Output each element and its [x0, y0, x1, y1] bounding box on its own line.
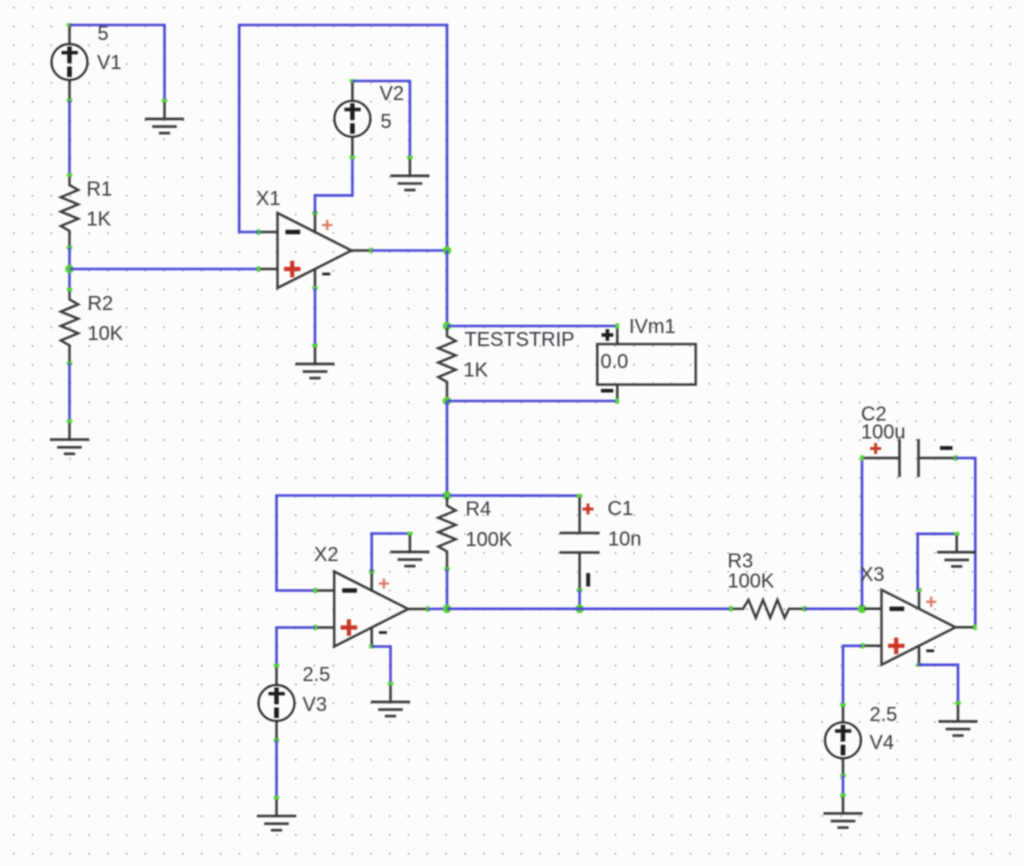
svg-text:IVm1: IVm1	[629, 316, 676, 338]
wire R1 to R2	[68, 248, 71, 290]
voltmeter IVm1	[597, 323, 695, 403]
ground (X1 V-)	[296, 344, 335, 378]
svg-text:10n: 10n	[608, 529, 641, 551]
svg-text:X3: X3	[860, 564, 884, 586]
wire V3- to ground	[275, 740, 278, 797]
voltage source V1	[52, 23, 88, 102]
wire R4 bottom to X2 output node	[446, 569, 449, 609]
svg-text:100K: 100K	[728, 571, 775, 593]
ground (R2)	[50, 419, 89, 453]
wire X1 output	[372, 249, 448, 252]
wire X2 V+ to ground	[372, 534, 410, 572]
wire TESTSTRIP bottom to voltmeter -	[447, 400, 617, 403]
ground (V1+)	[145, 99, 184, 133]
wire X3 V- to ground	[918, 665, 958, 703]
op-amp X1	[257, 211, 373, 290]
svg-text:100K: 100K	[466, 529, 513, 551]
wire X3 V+ to ground	[918, 534, 957, 590]
wire V1- to R1	[68, 101, 71, 176]
wire X1 output down to TESTSTRIP	[446, 251, 449, 327]
resistor R3	[729, 600, 806, 618]
wire X3 noninverting input to V4	[843, 646, 862, 705]
svg-text:V1: V1	[97, 52, 121, 74]
wire X2 output row to R3	[447, 607, 731, 610]
svg-text:1K: 1K	[464, 360, 489, 382]
voltage source V2	[334, 79, 370, 159]
svg-text:C1: C1	[608, 498, 634, 520]
svg-text:X1: X1	[256, 188, 280, 210]
wire X3 output stub	[974, 626, 977, 629]
wire V4- to ground	[842, 776, 845, 796]
svg-text:R3: R3	[728, 551, 754, 573]
node R4 top / feedback	[443, 491, 452, 500]
svg-text:5: 5	[381, 111, 392, 133]
svg-text:TESTSTRIP: TESTSTRIP	[465, 329, 575, 351]
resistor R1	[61, 173, 78, 249]
wire C2 right to X3 output	[956, 458, 976, 627]
wire TESTSTRIP top to voltmeter +	[447, 325, 617, 328]
svg-text:0.0: 0.0	[601, 351, 629, 373]
voltage source V3	[259, 664, 295, 742]
wire divider to X1 noninverting input	[70, 268, 259, 271]
wire C1 bottom to output row	[578, 590, 581, 609]
wire X2 output to junction	[428, 607, 447, 610]
resistor TESTSTRIP	[438, 324, 455, 403]
wire X1 feedback loop (output to inverting input)	[239, 25, 447, 251]
wire TESTSTRIP bottom down to R4 top	[446, 401, 449, 496]
node R1/R2 divider junction	[65, 265, 74, 274]
svg-text:1K: 1K	[87, 209, 112, 231]
wire R2 to ground	[68, 363, 71, 421]
svg-text:100u: 100u	[861, 422, 906, 444]
capacitor C1	[560, 494, 600, 592]
ground (V4)	[824, 793, 863, 827]
node X2 output junction	[443, 605, 452, 614]
wire X1 V+ to V2	[315, 157, 352, 213]
svg-text:R2: R2	[88, 293, 114, 315]
svg-text:R1: R1	[87, 179, 113, 201]
wire feedback to X2 inverting input	[277, 496, 448, 591]
op-amp X2	[313, 570, 429, 649]
capacitor C2	[860, 439, 957, 477]
wire X3 input node up to C2 left	[861, 458, 864, 609]
node X3 inverting input junction	[858, 605, 867, 614]
ground (X2 V-)	[371, 682, 410, 716]
ground (X3 V+)	[937, 532, 976, 566]
wire X2 noninverting input to V3	[277, 628, 315, 666]
wire X1 V- to ground	[314, 289, 317, 346]
voltage source V4	[825, 703, 861, 777]
svg-text:R4: R4	[466, 499, 492, 521]
ground (X3 V-)	[939, 701, 978, 735]
resistor R2	[61, 288, 78, 365]
svg-text:V3: V3	[303, 694, 327, 716]
svg-text:2.5: 2.5	[303, 664, 331, 686]
ground (X2 V+)	[390, 532, 429, 566]
node TESTSTRIP top	[443, 322, 452, 331]
wire V2+ to ground	[352, 81, 410, 157]
wire X2 V- to ground	[372, 647, 391, 684]
ground (V2+)	[390, 156, 429, 190]
wire R3 to X3 inverting input	[805, 607, 863, 610]
svg-text:V4: V4	[870, 732, 894, 754]
node X1 output junction	[443, 246, 452, 255]
wire R4 top to C1 top	[447, 494, 580, 497]
svg-text:X2: X2	[314, 544, 338, 566]
node C1 bottom junction	[575, 605, 584, 614]
svg-text:V2: V2	[380, 83, 404, 105]
resistor R4	[438, 494, 455, 571]
ground (V3)	[257, 796, 296, 830]
svg-text:2.5: 2.5	[870, 704, 898, 726]
svg-text:10K: 10K	[88, 323, 124, 345]
node TESTSTRIP bottom	[443, 397, 452, 406]
op-amp X3	[861, 588, 977, 667]
wire V1+ to ground	[70, 25, 165, 101]
